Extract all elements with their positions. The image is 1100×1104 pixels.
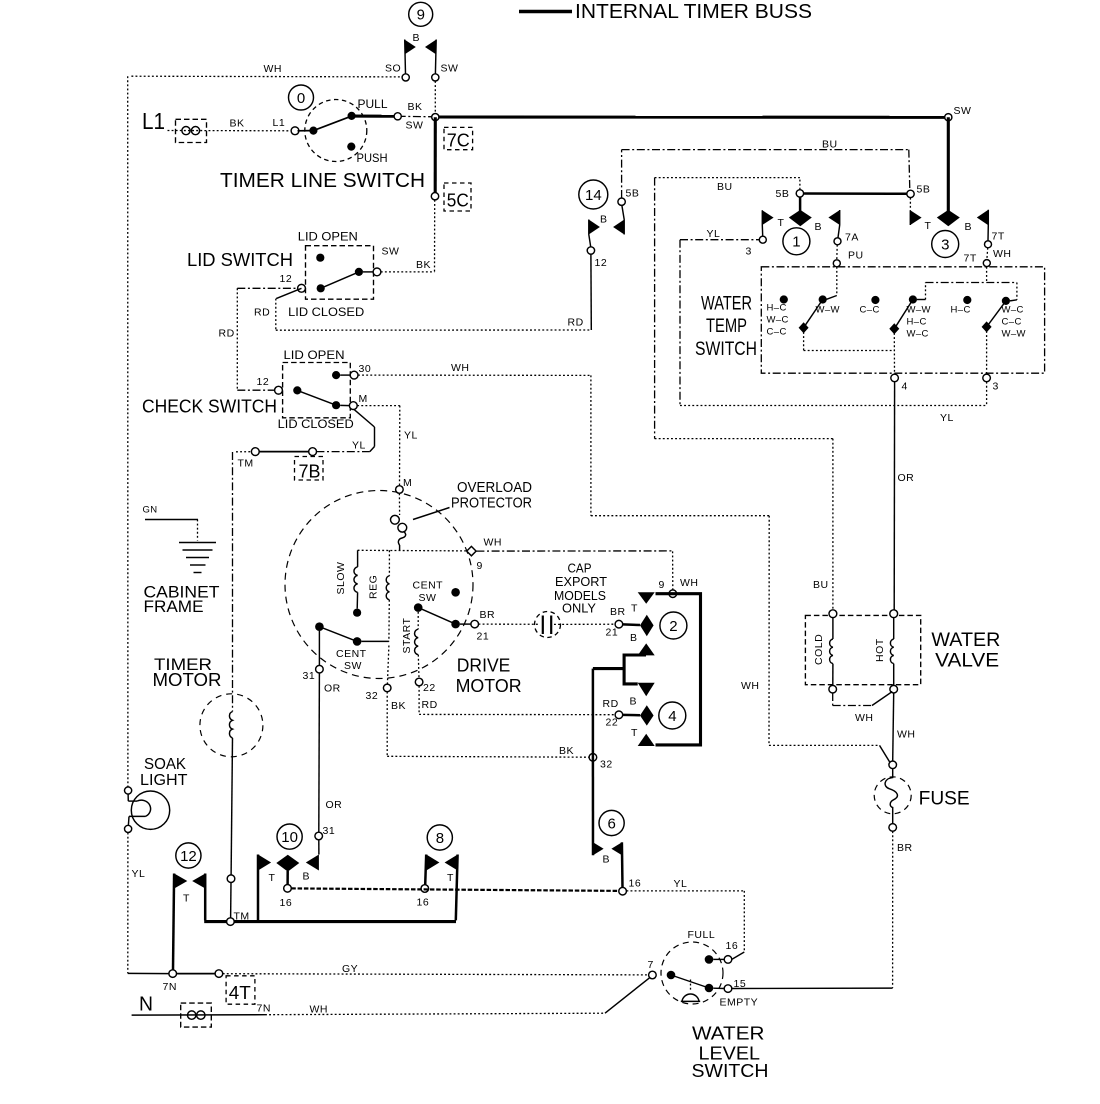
water level blade (667, 971, 724, 993)
svg-text:5C: 5C (447, 191, 469, 211)
svg-text:16: 16 (280, 897, 293, 909)
svg-text:BK: BK (391, 700, 406, 712)
svg-text:T: T (269, 872, 276, 884)
contact 2-4 link (624, 643, 655, 696)
svg-text:21: 21 (606, 627, 619, 639)
svg-text:LID SWITCH: LID SWITCH (187, 249, 293, 270)
timer contact 4 (623, 696, 686, 747)
node 12 of contact 14 (587, 247, 607, 269)
temp switch section 1 (767, 267, 840, 338)
svg-text:7B: 7B (299, 462, 321, 482)
svg-text:RD: RD (603, 698, 619, 710)
node 32 motor (366, 646, 407, 713)
node 16 (280, 885, 293, 910)
svg-text:W–W: W–W (1002, 329, 1026, 340)
terminal L1 (142, 108, 285, 143)
svg-text:CENT: CENT (413, 580, 444, 592)
svg-text:YL: YL (352, 440, 366, 452)
svg-text:WATER: WATER (692, 1023, 765, 1044)
svg-text:YL: YL (940, 412, 954, 424)
svg-text:B: B (303, 871, 311, 883)
timer motor (153, 452, 263, 919)
wire BK 5C to lid switch (381, 200, 435, 272)
node 7A (834, 232, 864, 262)
ground cabinet frame (143, 505, 220, 617)
svg-text:1: 1 (792, 234, 800, 251)
svg-text:SW: SW (382, 246, 400, 258)
svg-text:6: 6 (608, 815, 616, 832)
svg-text:T: T (183, 893, 190, 905)
svg-text:C–C: C–C (1002, 317, 1022, 328)
svg-text:HOT: HOT (874, 638, 886, 662)
svg-text:M: M (359, 393, 368, 405)
svg-text:SO: SO (385, 63, 401, 75)
svg-text:YL: YL (674, 878, 688, 890)
node 5B right (907, 184, 931, 198)
svg-text:14: 14 (585, 187, 602, 204)
wire to contact 6 (593, 669, 624, 754)
svg-text:WH: WH (264, 63, 283, 75)
svg-text:W–C: W–C (1002, 305, 1024, 316)
svg-text:PROTECTOR: PROTECTOR (451, 496, 532, 512)
node 5C (431, 193, 438, 200)
svg-text:COLD: COLD (813, 634, 825, 665)
wire BR fuse to 15 (732, 831, 893, 988)
node 32b (589, 754, 613, 771)
wire YL M to motor (357, 406, 418, 486)
coil SLOW (335, 550, 361, 617)
svg-text:7N: 7N (257, 1003, 271, 1015)
valve node cold bottom (829, 685, 837, 693)
svg-text:SLOW: SLOW (335, 562, 347, 595)
svg-text:REG: REG (368, 575, 380, 599)
box 4T (226, 976, 255, 1004)
svg-text:SWITCH: SWITCH (692, 1060, 769, 1081)
svg-text:ONLY: ONLY (562, 601, 597, 615)
wire RD lid switch to contact 14 (219, 254, 592, 339)
internal timer buss line (352, 101, 949, 132)
svg-text:WH: WH (897, 729, 916, 741)
svg-text:GY: GY (342, 963, 358, 975)
timer contact 8 (425, 825, 458, 920)
wire PU (833, 245, 840, 267)
wire WH motor top (358, 537, 502, 551)
node M of check switch (349, 393, 367, 410)
svg-text:OVERLOAD: OVERLOAD (457, 480, 532, 496)
svg-text:5B: 5B (776, 188, 790, 200)
svg-text:TM: TM (238, 458, 254, 470)
wire RD lid switch to check switch (237, 288, 297, 390)
svg-text:32: 32 (600, 759, 613, 771)
node SO (385, 63, 409, 82)
svg-text:H–C: H–C (907, 317, 927, 328)
svg-text:T: T (631, 727, 638, 739)
svg-text:WH: WH (680, 577, 699, 589)
wire BK L1 to switch (168, 130, 292, 132)
svg-text:WH: WH (741, 680, 760, 692)
timer contact 2 (623, 592, 701, 745)
svg-text:PU: PU (848, 250, 864, 262)
svg-text:EMPTY: EMPTY (720, 997, 759, 1009)
box 5C (444, 183, 471, 211)
coil HOT (874, 618, 894, 686)
coil REG (368, 550, 390, 641)
svg-text:SOAK: SOAK (144, 756, 186, 773)
svg-text:C–C: C–C (860, 305, 880, 316)
svg-text:B: B (413, 32, 421, 44)
svg-text:CHECK SWITCH: CHECK SWITCH (142, 397, 277, 417)
terminal N (139, 994, 211, 1028)
svg-text:BR: BR (480, 609, 496, 621)
svg-text:BK: BK (416, 259, 431, 271)
svg-text:VALVE: VALVE (935, 650, 999, 671)
svg-text:SW: SW (441, 63, 459, 75)
svg-text:12: 12 (257, 376, 270, 388)
wire TM thick bottom (204, 911, 456, 926)
wire 5B link (804, 192, 907, 195)
timer contact 12 (173, 843, 205, 970)
svg-text:INTERNAL TIMER BUSS: INTERNAL TIMER BUSS (575, 1, 812, 23)
svg-text:L1: L1 (142, 108, 165, 134)
svg-text:SW: SW (954, 105, 972, 117)
svg-text:T: T (925, 220, 932, 232)
node 22b (603, 698, 623, 729)
svg-text:B: B (815, 221, 823, 233)
svg-text:15: 15 (734, 978, 747, 990)
cent sw lower (315, 622, 389, 672)
box 7B (295, 457, 324, 482)
svg-text:FULL: FULL (688, 929, 716, 941)
svg-text:21: 21 (477, 631, 490, 643)
svg-text:4: 4 (668, 708, 676, 725)
svg-text:EXPORT: EXPORT (555, 575, 607, 589)
node 15 (720, 978, 759, 1009)
svg-text:N: N (139, 994, 153, 1016)
node M motor (396, 477, 413, 493)
svg-text:22: 22 (423, 682, 436, 694)
svg-text:C–C: C–C (767, 327, 787, 338)
svg-text:7T: 7T (964, 253, 977, 265)
drive motor boundary (285, 491, 473, 679)
label drive motor (456, 655, 522, 697)
svg-text:9: 9 (659, 579, 665, 591)
svg-text:T: T (447, 872, 454, 884)
wire 16 line (291, 888, 619, 891)
svg-text:16: 16 (629, 878, 642, 890)
svg-text:YL: YL (404, 430, 418, 442)
node SW right (945, 105, 972, 121)
svg-text:BK: BK (559, 745, 574, 757)
svg-text:WATER: WATER (931, 630, 1000, 651)
check switch (142, 348, 354, 431)
svg-text:16: 16 (417, 897, 430, 909)
svg-text:2: 2 (669, 618, 677, 635)
cent sw upper (413, 580, 471, 629)
wire BK 32 to node 32b (387, 692, 589, 758)
svg-text:22: 22 (606, 717, 619, 729)
node 7 (648, 959, 657, 979)
valve node hot bottom (890, 685, 898, 693)
svg-text:M: M (403, 477, 412, 489)
node 22 (415, 678, 437, 711)
node 9b (659, 577, 699, 598)
wire BU upper loop (622, 139, 910, 199)
wire YL temp switch (680, 382, 987, 424)
temp switch section 2 (860, 267, 1017, 340)
capacitor export models (479, 562, 616, 638)
svg-text:31: 31 (323, 825, 336, 837)
svg-text:12: 12 (180, 848, 197, 865)
svg-text:LID OPEN: LID OPEN (298, 230, 358, 244)
svg-text:9: 9 (477, 560, 483, 572)
wire WH node9 to node9b (476, 551, 672, 590)
node 7N (163, 970, 223, 993)
timer contact 6 (593, 753, 624, 888)
svg-text:B: B (600, 214, 608, 226)
timer contact 10 (258, 824, 319, 920)
svg-text:BR: BR (610, 606, 626, 618)
svg-text:B: B (630, 632, 638, 644)
wire WH neutral (132, 978, 650, 1016)
wire GY (223, 963, 649, 975)
timer line switch (220, 85, 425, 192)
svg-text:16: 16 (726, 940, 739, 952)
node 9 (467, 546, 483, 572)
svg-text:BK: BK (408, 101, 423, 113)
node 31 motor (303, 631, 341, 695)
timer contact 9 (405, 2, 437, 73)
svg-text:SW: SW (406, 120, 424, 132)
wire SW drop to buss (434, 81, 436, 114)
svg-text:7C: 7C (447, 131, 470, 151)
svg-text:W–C: W–C (907, 329, 929, 340)
valve node cold top (829, 610, 837, 618)
svg-text:31: 31 (303, 670, 316, 682)
svg-text:TEMP: TEMP (706, 316, 747, 337)
temp switch wire to node 4 (804, 332, 895, 351)
node 21 (471, 609, 495, 643)
svg-text:RD: RD (568, 317, 584, 329)
svg-text:LID CLOSED: LID CLOSED (278, 417, 354, 431)
wire YL M to timer motor line (316, 409, 374, 451)
svg-text:B: B (630, 696, 638, 708)
svg-text:30: 30 (359, 363, 372, 375)
overload protector (391, 480, 533, 550)
svg-text:7N: 7N (163, 981, 177, 993)
svg-text:RD: RD (254, 307, 270, 319)
node 3 of contact 1 (746, 236, 767, 257)
svg-text:7A: 7A (845, 232, 859, 244)
coil COLD (813, 618, 833, 686)
svg-text:32: 32 (366, 690, 379, 702)
wire RD 22 to contact 4 (419, 686, 615, 715)
wire OR node4 to valve (894, 382, 914, 610)
node 30 (350, 363, 371, 379)
timer contact 1 (762, 197, 840, 255)
svg-text:LIGHT: LIGHT (140, 772, 188, 789)
svg-text:YL: YL (132, 868, 146, 880)
svg-text:5B: 5B (917, 184, 931, 196)
svg-text:WH: WH (993, 248, 1012, 260)
wire BU to water valve (655, 178, 833, 610)
svg-text:10: 10 (281, 829, 298, 846)
svg-text:5B: 5B (626, 188, 640, 200)
node 16b (417, 885, 430, 909)
node 21b (606, 606, 626, 639)
valve node hot top (890, 610, 898, 618)
full contact (688, 929, 739, 964)
node 7T (964, 231, 1012, 267)
svg-text:YL: YL (707, 228, 721, 240)
svg-text:BK: BK (230, 118, 245, 130)
water temp switch box (695, 267, 1045, 373)
svg-text:MOTOR: MOTOR (456, 675, 522, 696)
svg-text:W–W: W–W (907, 305, 931, 316)
svg-text:START: START (401, 617, 413, 653)
svg-text:BU: BU (822, 139, 838, 151)
svg-text:7: 7 (648, 959, 654, 971)
svg-text:8: 8 (436, 830, 444, 847)
svg-text:OR: OR (898, 472, 915, 484)
svg-text:PUSH: PUSH (357, 151, 388, 165)
svg-text:LID CLOSED: LID CLOSED (288, 305, 364, 319)
water valve (805, 615, 1000, 684)
svg-text:BU: BU (813, 579, 829, 591)
svg-text:4: 4 (902, 381, 908, 393)
svg-text:WH: WH (451, 362, 470, 374)
svg-text:4T: 4T (229, 983, 251, 1003)
lid switch (187, 230, 399, 320)
svg-text:L1: L1 (273, 117, 286, 129)
node SW top (432, 63, 459, 82)
svg-text:BR: BR (897, 842, 913, 854)
svg-text:LID OPEN: LID OPEN (284, 348, 345, 362)
svg-text:BU: BU (717, 181, 733, 193)
svg-text:GN: GN (143, 505, 158, 516)
svg-text:3: 3 (993, 381, 999, 393)
svg-text:FUSE: FUSE (919, 789, 970, 810)
svg-text:3: 3 (941, 236, 949, 253)
svg-text:SWITCH: SWITCH (695, 339, 757, 360)
svg-text:OR: OR (326, 799, 343, 811)
svg-text:H–C: H–C (767, 303, 787, 314)
wire YL soak to 7N (128, 833, 169, 974)
soak light (125, 756, 188, 833)
node 5B left (618, 188, 639, 206)
svg-text:CENT: CENT (336, 648, 367, 660)
wire WH check switch to right column (358, 362, 769, 745)
node 3 bottom (983, 331, 999, 393)
wire TM (236, 448, 317, 470)
svg-text:0: 0 (297, 90, 305, 107)
svg-text:TIMER LINE SWITCH: TIMER LINE SWITCH (220, 170, 425, 192)
wire OR (319, 673, 342, 832)
wire WH top (131, 63, 402, 77)
temp switch section 3 (951, 296, 1026, 340)
svg-text:H–C: H–C (951, 305, 971, 316)
node 31 bottom (315, 825, 335, 840)
svg-text:RD: RD (422, 699, 438, 711)
wire YL 16 to full (626, 878, 744, 959)
wire WH left vertical (127, 76, 129, 787)
svg-text:MOTOR: MOTOR (153, 670, 222, 690)
svg-text:TM: TM (234, 911, 250, 923)
timer contact 3 (910, 117, 988, 257)
svg-text:3: 3 (746, 246, 752, 258)
svg-text:WH: WH (310, 1004, 329, 1016)
buss drop to 5C (434, 117, 437, 192)
fuse (874, 761, 970, 854)
svg-text:12: 12 (595, 257, 608, 269)
box 7C (444, 127, 473, 150)
svg-text:PULL: PULL (358, 97, 388, 111)
svg-text:12: 12 (280, 273, 293, 285)
wire YL contact1 to temp switch (680, 228, 759, 405)
timer contact 14 (579, 180, 625, 247)
svg-text:WH: WH (484, 537, 503, 549)
svg-text:9: 9 (417, 7, 425, 24)
svg-text:T: T (631, 603, 638, 615)
svg-text:WATER: WATER (701, 294, 752, 315)
legend: internal timer buss (519, 1, 812, 23)
svg-text:WH: WH (855, 712, 874, 724)
svg-text:W–C: W–C (767, 315, 789, 326)
svg-text:SW: SW (419, 592, 437, 604)
svg-text:CAP: CAP (568, 562, 592, 576)
node 16c (619, 878, 641, 896)
wire WH valve bottoms (833, 692, 893, 725)
diaphragm (681, 980, 700, 1002)
node 4 (891, 333, 908, 393)
svg-text:W–W: W–W (816, 305, 840, 316)
svg-text:B: B (603, 854, 611, 866)
wire WH from left to fuse (769, 745, 890, 762)
svg-text:T: T (778, 217, 785, 229)
svg-text:FRAME: FRAME (144, 597, 204, 616)
svg-text:OR: OR (324, 683, 341, 695)
water level switch (661, 942, 769, 1081)
svg-text:DRIVE: DRIVE (457, 655, 511, 676)
svg-text:B: B (965, 221, 973, 233)
wire WH hot to fuse (893, 693, 916, 761)
coil START (401, 612, 419, 678)
svg-text:7T: 7T (992, 231, 1005, 243)
svg-text:SW: SW (344, 660, 362, 672)
svg-text:RD: RD (219, 328, 235, 340)
node 5B mid (776, 188, 804, 200)
